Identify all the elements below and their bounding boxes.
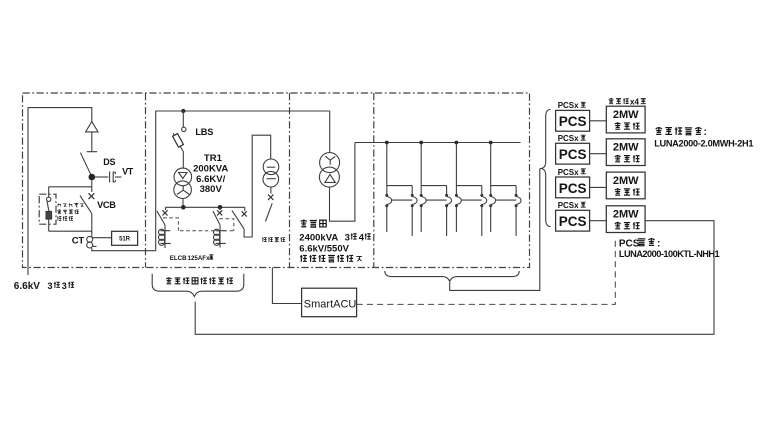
svg-text:PCSx: PCSx bbox=[558, 101, 579, 110]
svg-text:2MW: 2MW bbox=[613, 142, 639, 154]
node LBS tap bbox=[181, 109, 185, 113]
brace PCS group bbox=[540, 110, 551, 227]
PCS unit U2 box bbox=[556, 143, 590, 164]
svg-text::: : bbox=[657, 238, 660, 249]
PCS unit U4 box bbox=[556, 210, 590, 231]
svg-text:4: 4 bbox=[359, 232, 365, 243]
wire CT to 51R bbox=[92, 237, 112, 239]
energy server switch bbox=[47, 197, 51, 211]
CT current transformer bbox=[72, 235, 97, 248]
ELCB breaker 1 bbox=[157, 207, 171, 248]
ELCB trip linkage dashes bbox=[163, 218, 234, 231]
feeder 3 breaker pair bbox=[455, 143, 487, 237]
wire main transformer secondary riser bbox=[330, 143, 355, 222]
svg-text:2400kVA: 2400kVA bbox=[299, 232, 338, 243]
svg-text:PCSx: PCSx bbox=[558, 134, 579, 143]
svg-text:VCB: VCB bbox=[97, 200, 116, 210]
svg-text:6.6kV: 6.6kV bbox=[14, 281, 40, 292]
svg-text:3: 3 bbox=[48, 281, 53, 291]
wire PCS1 to battery bbox=[590, 120, 607, 122]
wire VT branch bbox=[95, 176, 108, 178]
svg-text:2MW: 2MW bbox=[613, 209, 639, 221]
wire aux section riser and top bus bbox=[156, 111, 330, 251]
cubicle divider 3 bbox=[373, 93, 375, 268]
svg-text:PCS: PCS bbox=[559, 214, 587, 229]
LBS load break switch with fuse bbox=[173, 111, 214, 169]
svg-text:TR1: TR1 bbox=[204, 153, 223, 164]
battery 2MW box 1 bbox=[606, 106, 645, 133]
VT voltage transformer bbox=[110, 167, 134, 183]
node feeder 2 tap bbox=[419, 141, 423, 145]
svg-text:ELCB: ELCB bbox=[170, 255, 187, 262]
svg-text:CT: CT bbox=[72, 235, 85, 246]
svg-text:3: 3 bbox=[62, 281, 67, 291]
svg-text:PCS: PCS bbox=[559, 181, 587, 196]
energy server branch wires bbox=[49, 187, 92, 231]
label PCS model bbox=[619, 238, 720, 258]
label PCS x units 2 bbox=[558, 134, 586, 143]
label energy server inrush note bbox=[57, 203, 84, 221]
relay 51R box bbox=[112, 231, 138, 245]
wire incoming 6.6kV riser bbox=[28, 108, 92, 275]
feeder 2 breaker pair bbox=[420, 143, 452, 237]
label battery model bbox=[654, 127, 753, 148]
PCS unit U3 box bbox=[556, 177, 590, 198]
svg-text::: : bbox=[704, 127, 707, 138]
svg-text:2MW: 2MW bbox=[613, 109, 639, 121]
label main transformer ratings bbox=[299, 220, 370, 262]
brace feeder group bbox=[385, 271, 519, 281]
feeder 1 breaker pair bbox=[385, 143, 417, 237]
wire TR1 secondary bus bbox=[166, 198, 245, 207]
SmartACU box bbox=[302, 288, 357, 317]
wire TR1 top feed to main transformer bbox=[329, 111, 331, 153]
label ELCB 125AFx4 bbox=[170, 255, 214, 262]
node TR1 bus left bbox=[181, 205, 186, 210]
node main junction bbox=[89, 174, 96, 181]
svg-text:PCS: PCS bbox=[559, 114, 587, 129]
dashed comm line SmartACU to PCS bbox=[357, 237, 616, 304]
label battery x4 units bbox=[609, 98, 646, 107]
svg-text:6.6kV/550V: 6.6kV/550V bbox=[299, 243, 349, 254]
svg-text:VT: VT bbox=[122, 167, 134, 177]
svg-text:PCS: PCS bbox=[619, 238, 640, 249]
battery 2MW box 4 bbox=[606, 206, 645, 233]
cubicle divider 2 bbox=[289, 93, 291, 268]
energy server fuse bbox=[46, 211, 52, 219]
svg-text:PCS: PCS bbox=[559, 147, 587, 162]
node feeder 4 tap bbox=[489, 141, 493, 145]
label PCS x units 3 bbox=[558, 168, 586, 177]
arrester (lightning) bbox=[86, 122, 98, 152]
wire PCS3 to battery bbox=[590, 186, 607, 188]
label PCS x units 4 bbox=[558, 201, 586, 210]
disconnect switch DS bbox=[80, 153, 115, 177]
cubicle divider 1 bbox=[145, 93, 147, 268]
aux transformer bbox=[263, 159, 279, 187]
wire main to aux section bbox=[92, 248, 156, 251]
battery 2MW box 2 bbox=[606, 139, 645, 166]
svg-text:LBS: LBS bbox=[195, 127, 213, 137]
svg-text:PCSx: PCSx bbox=[558, 201, 579, 210]
svg-text:2MW: 2MW bbox=[613, 175, 639, 187]
aux feeder switch bbox=[232, 135, 271, 237]
LV distribution bus bbox=[355, 142, 521, 144]
VCB vacuum circuit breaker bbox=[80, 180, 116, 236]
PCS unit U1 box bbox=[556, 110, 590, 131]
svg-text:51R: 51R bbox=[119, 237, 131, 243]
svg-text:LUNA2000-100KTL-NHH1: LUNA2000-100KTL-NHH1 bbox=[619, 249, 720, 259]
svg-text:125AFx4: 125AFx4 bbox=[188, 255, 214, 262]
wire battery 4 to system bottom loop bbox=[195, 221, 714, 335]
svg-text:LUNA2000-2.0MWH-2H1: LUNA2000-2.0MWH-2H1 bbox=[654, 139, 753, 149]
label aux power bbox=[262, 237, 285, 242]
node feeder 1 tap bbox=[385, 141, 389, 145]
battery 2MW box 3 bbox=[606, 172, 645, 199]
ELCB breaker 2 bbox=[213, 207, 226, 247]
main transformer bbox=[319, 153, 339, 188]
node feeder 3 tap bbox=[455, 141, 459, 145]
wire PCS2 to battery bbox=[590, 153, 607, 155]
svg-text:SmartACU: SmartACU bbox=[304, 299, 357, 311]
label PCS x units 1 bbox=[558, 101, 586, 110]
aux secondary switch bbox=[266, 187, 274, 222]
node TR1 bus right bbox=[218, 205, 223, 210]
label TR1 ratings bbox=[193, 153, 228, 195]
svg-text:PCSx: PCSx bbox=[558, 168, 579, 177]
transformer TR1 bbox=[174, 168, 192, 198]
svg-text:x4: x4 bbox=[630, 98, 639, 107]
svg-text:3: 3 bbox=[345, 232, 350, 243]
feeder 4 breaker pair bbox=[489, 143, 521, 237]
brace battery aux power label bbox=[152, 274, 244, 297]
wire PCS4 to battery bbox=[590, 220, 607, 222]
wire feeder group to PCS brace bbox=[450, 169, 540, 291]
cubicle border outer box bbox=[23, 93, 530, 268]
label 6.6kV 3-phase 3-wire bbox=[14, 281, 74, 292]
energy server dash-dot enclosure bbox=[39, 194, 56, 224]
svg-text:380V: 380V bbox=[200, 184, 223, 195]
svg-text:DS: DS bbox=[103, 157, 115, 167]
wire SmartACU supply bbox=[272, 268, 301, 304]
